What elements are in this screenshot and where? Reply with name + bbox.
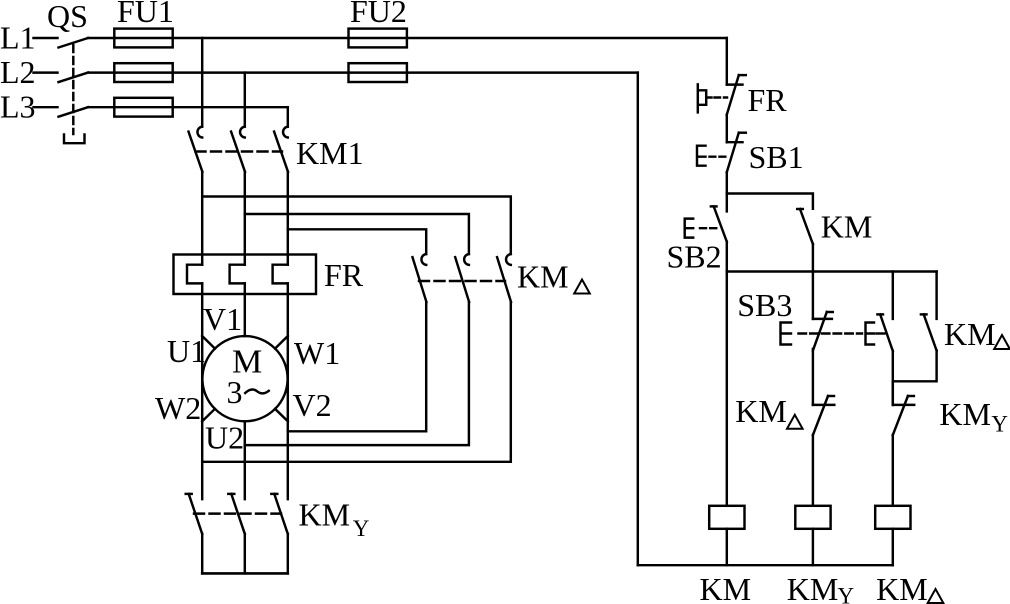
- contactor KM-delta linkage dashed: [419, 280, 505, 282]
- svg-text:KM: KM: [787, 571, 839, 604]
- svg-text:Y: Y: [353, 516, 370, 541]
- wire SB1 to branch node: [726, 172, 728, 193]
- wire phase B FR to motor: [244, 283, 246, 336]
- wire KM coil branch: [726, 272, 728, 506]
- svg-text:Y: Y: [991, 412, 1008, 437]
- svg-text:V1: V1: [203, 301, 242, 337]
- wire U1 slant: [202, 336, 215, 349]
- wire phase C drop: [287, 107, 289, 126]
- button SB3 actuator E1: [781, 323, 792, 345]
- svg-text:KM: KM: [821, 209, 873, 245]
- wire SB3 NO lower: [892, 351, 894, 405]
- contactor KM-Y pole 3 blade tick: [271, 493, 277, 495]
- svg-text:KM: KM: [944, 316, 996, 352]
- contactor KM-delta pole 3 blade: [497, 257, 511, 302]
- fuse FU2 pole 1: [349, 29, 407, 48]
- wire SB3 NC to KM-delta NC: [812, 349, 814, 405]
- contactor KM-Y pole 2 blade: [231, 494, 245, 534]
- contactor KM-delta pole 2 fixed contact: [464, 254, 469, 265]
- contactor KM-Y pole 2 blade tick: [228, 493, 234, 495]
- wire L2 row: [88, 71, 638, 73]
- coil KM-Y: [795, 506, 830, 529]
- contactor KM-Y linkage dashed: [194, 512, 281, 514]
- fuse FU1 pole 1: [114, 29, 172, 48]
- wire W1 slant: [275, 336, 288, 349]
- button SB2 NO blade: [714, 206, 727, 241]
- relay FR trip element: [698, 84, 712, 112]
- wire delta branch 1 (phase A to KM-delta pole 3): [202, 197, 511, 255]
- button SB3 NC tick: [813, 318, 832, 320]
- wire phase C KM1 to FR: [287, 172, 289, 265]
- wire U2 drop: [244, 421, 246, 499]
- wire V2 slant: [275, 409, 288, 422]
- wire W2 slant: [202, 409, 215, 422]
- wire bottom return bar: [638, 564, 893, 566]
- wire L2 return drop: [637, 73, 639, 566]
- wire phase A drop: [201, 38, 203, 127]
- svg-text:V2: V2: [293, 387, 332, 423]
- svg-text:FR: FR: [324, 257, 364, 293]
- button SB3 NO blade tick: [877, 313, 883, 315]
- button SB3 linkage dashed 2: [877, 332, 885, 334]
- wire L3 row: [88, 106, 288, 108]
- button SB3 NO upper wire: [892, 272, 894, 319]
- button SB1 linkage dashed: [710, 155, 728, 157]
- contactor KM-delta label subscript triangle: [574, 280, 590, 294]
- wire L1 stub: [34, 37, 58, 39]
- button SB1 NC blade top tick: [739, 131, 746, 133]
- wire KM-delta NC to KM-Y coil: [812, 435, 814, 506]
- contact KM-Y NC blade: [893, 396, 908, 435]
- motor tilde: [245, 389, 269, 393]
- svg-text:SB2: SB2: [667, 239, 722, 275]
- contactor KM-Y pole 1 blade tick: [186, 493, 192, 495]
- svg-text:KM: KM: [735, 393, 787, 429]
- wire star point bar: [202, 572, 288, 575]
- contact KM-delta aux NO upper wire: [935, 272, 937, 319]
- svg-text:KM1: KM1: [296, 135, 364, 171]
- svg-text:SB1: SB1: [749, 139, 804, 175]
- motor M circle: [202, 336, 287, 421]
- button SB2 NO blade tick: [711, 205, 717, 207]
- svg-text:FU1: FU1: [117, 0, 174, 29]
- contact KM-delta aux NO blade: [924, 314, 937, 350]
- relay FR NC contact tick: [727, 83, 743, 85]
- button SB3 linkage dashed 1: [799, 332, 863, 334]
- switch QS handle: [64, 135, 85, 144]
- thermal relay FR heater pole 2: [230, 265, 245, 284]
- button SB1 NC tick: [727, 141, 743, 143]
- contactor KM-delta pole 1 blade: [413, 257, 427, 302]
- svg-text:SB3: SB3: [737, 287, 792, 323]
- svg-text:U2: U2: [205, 420, 244, 456]
- svg-text:L1: L1: [0, 20, 36, 56]
- wire phase B drop: [244, 73, 246, 127]
- svg-text:FR: FR: [748, 82, 788, 118]
- svg-text:Y: Y: [838, 584, 855, 604]
- wire L2 stub: [34, 71, 58, 73]
- contact KM-Y NC upper wire: [892, 381, 894, 405]
- button SB3 actuator E2: [866, 323, 875, 345]
- switch QS linkage dashed: [72, 45, 74, 134]
- svg-text:L3: L3: [0, 89, 36, 125]
- button SB3 NO blade: [880, 314, 893, 351]
- svg-text:KM: KM: [517, 259, 569, 295]
- svg-text:W1: W1: [294, 335, 340, 371]
- thermal relay FR heater pole 1: [187, 265, 202, 284]
- wire control phase drop from L1: [726, 38, 728, 85]
- contact KM-delta aux NO blade tick: [921, 313, 927, 315]
- wire node line: [727, 270, 937, 272]
- wire KM-Y pole 2 lower: [244, 534, 246, 574]
- contactor KM-Y pole 3 blade: [274, 494, 288, 534]
- wire phase C FR to motor/KM-Y: [287, 283, 289, 499]
- button SB1 actuator E: [697, 146, 706, 166]
- contactor KM-delta pole 1 fixed contact: [421, 254, 426, 265]
- button SB2 linkage dashed: [700, 227, 719, 229]
- fuse FU1 pole 2: [114, 63, 172, 82]
- wire KM-delta aux lower: [893, 351, 937, 382]
- contactor KM1 pole 2 fixed contact: [240, 127, 245, 138]
- thermal relay FR heater pole 3: [273, 265, 288, 284]
- contact KM-delta NC blade: [813, 396, 828, 435]
- button SB2 actuator E: [685, 219, 694, 238]
- contact KM-delta NC label subscript triangle: [787, 415, 803, 429]
- svg-text:FU2: FU2: [350, 0, 407, 29]
- svg-text:QS: QS: [47, 0, 88, 34]
- wire delta branch 2 (phase B to KM-delta pole 2): [245, 214, 469, 254]
- coil KM-delta label subscript triangle: [928, 589, 944, 603]
- contact KM aux NO blade tick: [797, 208, 803, 210]
- wire KM-Y pole 3 lower: [287, 534, 289, 574]
- contactor KM1 pole 3 blade: [274, 132, 288, 172]
- button SB2 upper wire: [726, 194, 728, 212]
- contact KM-delta NC blade top tick: [828, 395, 834, 397]
- wire L1 row: [88, 37, 727, 39]
- contactor KM-Y pole 1 blade: [189, 494, 203, 534]
- wire phase A FR to motor/KM-Y: [201, 283, 203, 499]
- wire phase A KM1 to FR: [201, 172, 203, 265]
- button SB3 NC blade: [813, 312, 827, 351]
- wire KM-Y NC to KM-delta coil: [892, 435, 894, 506]
- contactor KM1 pole 2 blade: [231, 132, 245, 172]
- contact KM-Y NC tick: [893, 404, 914, 406]
- wire KM aux to node line: [812, 244, 814, 272]
- wire KM-Y pole 1 lower: [201, 534, 203, 574]
- wire KM-delta pole 2 to U2: [245, 302, 469, 445]
- coil KM-delta: [875, 506, 910, 529]
- svg-text:3: 3: [227, 374, 243, 410]
- button SB3 NC upper wire: [812, 272, 814, 319]
- svg-text:KM: KM: [700, 571, 752, 604]
- switch QS pole 3 blade: [59, 107, 89, 117]
- wire delta branch 3 (phase C to KM-delta pole 1): [288, 229, 426, 254]
- svg-text:L2: L2: [0, 54, 36, 90]
- svg-text:U1: U1: [167, 333, 206, 369]
- contact KM-delta aux label subscript triangle: [994, 335, 1010, 349]
- fuse FU1 pole 3: [114, 98, 172, 117]
- wire L3 stub: [34, 106, 58, 108]
- svg-text:KM: KM: [299, 497, 351, 533]
- thermal relay FR box: [174, 255, 317, 295]
- contactor KM-delta pole 2 blade: [455, 257, 469, 302]
- switch QS pole 1 blade: [59, 38, 89, 48]
- contactor KM1 pole 3 fixed contact: [283, 127, 288, 138]
- contactor KM1 pole 1 blade: [189, 132, 203, 172]
- wire KM-delta pole 3 to W2: [202, 302, 511, 462]
- wire KM-delta coil to bottom bar: [892, 529, 894, 565]
- wire KM coil to bottom bar: [726, 529, 728, 565]
- contactor KM-delta pole 3 fixed contact: [506, 254, 511, 265]
- wire KM-delta pole 1 to V2: [288, 302, 426, 431]
- svg-text:W2: W2: [155, 390, 201, 426]
- wire phase B KM1 to FR: [244, 172, 246, 265]
- fuse FU2 pole 2: [349, 63, 407, 82]
- button SB1 NC blade: [727, 133, 739, 173]
- coil KM: [709, 506, 744, 529]
- contact KM aux NO blade: [800, 209, 813, 244]
- button SB3 NC blade top tick: [827, 311, 833, 313]
- wire KM-Y coil to bottom bar: [812, 529, 814, 565]
- relay FR NC contact blade: [727, 75, 739, 115]
- switch QS pole 2 blade: [59, 73, 89, 83]
- relay FR NC blade top tick: [739, 74, 746, 76]
- relay FR trip linkage dashed: [715, 96, 728, 98]
- svg-text:KM: KM: [876, 571, 928, 604]
- contact KM-delta NC tick: [813, 404, 834, 406]
- wire SB2 to node line: [726, 242, 728, 272]
- contact KM-Y NC blade top tick: [908, 395, 914, 397]
- svg-text:KM: KM: [939, 396, 991, 432]
- contactor KM1 linkage dashed: [196, 150, 283, 152]
- wire FR to SB1: [726, 115, 728, 143]
- contactor KM1 pole 1 fixed contact: [197, 127, 202, 138]
- wire branch to KM aux: [727, 194, 813, 209]
